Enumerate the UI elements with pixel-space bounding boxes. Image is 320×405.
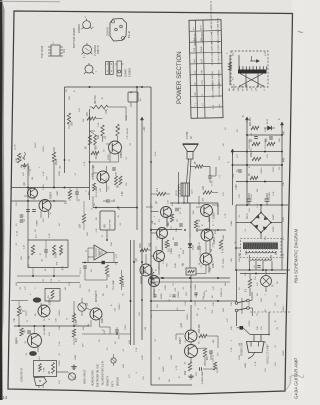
label C24 (113, 279, 115, 290)
transistor Q10 (201, 229, 216, 244)
oscillator triangle (88, 245, 114, 260)
dashed box voltage selector (231, 51, 268, 87)
label BOTTOM VIEWS (72, 28, 76, 48)
resistor tb4 (60, 245, 65, 270)
resistor R53 (165, 240, 170, 252)
wire output loop (190, 167, 216, 177)
wire trunk x28 (27, 163, 29, 240)
wire jack links (57, 365, 77, 373)
resistor R44 (251, 148, 261, 161)
wire Q3 wiring (106, 136, 119, 162)
wire diag (90, 131, 103, 142)
svg-text:1M: 1M (88, 323, 90, 326)
transistor Q15 (180, 336, 198, 357)
resistor R36 (199, 324, 207, 338)
svg-text:2.2K: 2.2K (168, 199, 170, 204)
resistor R39 emitter (185, 362, 192, 375)
wire output mesh (151, 195, 217, 275)
power transformer secondary winding (250, 259, 272, 261)
wire switch connections (237, 270, 253, 326)
resistor R15 (86, 135, 92, 149)
page corner curl bottom-right (285, 370, 304, 391)
svg-text:47K: 47K (156, 246, 158, 250)
svg-text:47K: 47K (114, 307, 116, 311)
resistor R17 (115, 176, 120, 188)
selector corner labels (233, 51, 268, 90)
resistor R43 (266, 137, 275, 145)
power switch S1 pole1 (235, 299, 249, 304)
labels tone box (35, 233, 52, 238)
jack network box (34, 361, 57, 377)
label LOW INPUT (20, 367, 24, 382)
pinout transistor 2SB346 (78, 16, 95, 34)
potentiometer VR3 (92, 94, 108, 114)
capacitor C30 (209, 351, 214, 362)
selector bottom label row (228, 87, 258, 91)
switch mechanical link dashed (242, 298, 290, 314)
svg-text:25V: 25V (83, 343, 85, 347)
svg-text:47K: 47K (100, 187, 102, 191)
capacitor C27 (171, 243, 178, 252)
wire preamp mid links (90, 131, 158, 162)
small loop 50 (45, 289, 60, 302)
resistor tb3 (53, 245, 58, 258)
wire tone rails (11, 268, 80, 301)
resistor Rin2 (72, 329, 78, 345)
corner scan tick (298, 31, 303, 32)
power transformer PT dashed enclosure (241, 239, 282, 258)
notes text block (93, 360, 120, 387)
label IC1 (62, 48, 66, 53)
resistor R52 (194, 220, 199, 232)
wire PSU rail C vertical (232, 152, 234, 205)
svg-text:1M: 1M (190, 285, 192, 288)
transistor Q3 (104, 135, 124, 158)
wire driver links (176, 334, 218, 370)
svg-text:10K: 10K (210, 267, 212, 271)
resistor R45 (249, 173, 258, 180)
wire center trunk (185, 164, 191, 300)
vibrato foot switch box (100, 211, 115, 240)
transistor Q14 (180, 322, 197, 342)
output transformer OT (176, 183, 194, 197)
capacitor near Q7 (172, 202, 178, 212)
label row below selector (229, 83, 257, 89)
wire PSU rail A vertical + (246, 121, 248, 205)
svg-text:25V: 25V (100, 251, 102, 255)
IC1 package top view (48, 40, 63, 56)
svg-text:25V: 25V (202, 197, 204, 201)
wire q6 links (86, 308, 110, 334)
wire vib links (85, 263, 131, 291)
resistor R42 (251, 139, 260, 146)
svg-text:1M: 1M (114, 199, 116, 202)
svg-text:2.2K: 2.2K (212, 242, 214, 247)
resistor R22 (151, 272, 156, 283)
capacitor col x22 (17, 215, 24, 236)
selector feed component (227, 52, 235, 85)
label +45V (235, 184, 238, 190)
label TOP VIEW (41, 45, 44, 58)
svg-text:1M: 1M (65, 287, 67, 290)
resistor above Q8 (203, 185, 212, 194)
terminal lug node (240, 326, 244, 330)
svg-text:10K: 10K (56, 261, 58, 265)
resistor R21 (120, 276, 125, 287)
wire trunk x137 (136, 87, 138, 230)
svg-text:2.2K: 2.2K (96, 228, 98, 233)
selector arrow (239, 55, 260, 70)
wire OT secondary leads (170, 172, 218, 204)
electrolytic C34 (247, 193, 254, 205)
resistor R60 (66, 188, 72, 205)
wire spk region links (210, 175, 221, 215)
resistor R12 (98, 125, 104, 139)
wire PSU hrail 181 (236, 181, 282, 183)
transistor Q5 (135, 258, 152, 276)
wire driver trunk (190, 305, 192, 362)
transistor Q7 (155, 200, 172, 217)
resistor R11 (87, 111, 96, 120)
resistor Rin1 (17, 328, 24, 344)
capacitor C37 (196, 367, 202, 376)
terminal strip black bar (238, 66, 267, 73)
transistor Q2b (39, 191, 53, 211)
tone box loop (28, 240, 68, 268)
parts table (188, 0, 223, 118)
capacitor C25 (115, 330, 120, 339)
transistor Q13 half (144, 268, 160, 287)
wire speaker to OT (187, 159, 192, 183)
table header EXPORT (200, 32, 204, 44)
transistor Q2a (23, 182, 38, 198)
svg-text:10K: 10K (168, 222, 170, 226)
capacitor C32 (265, 137, 273, 149)
svg-text:2.2K: 2.2K (56, 318, 58, 323)
resistor R23 (140, 243, 148, 252)
svg-text:1M: 1M (169, 244, 171, 247)
bridge rectifier SR1 (246, 212, 272, 234)
wire osc rails (82, 248, 118, 264)
label POWER SW (242, 342, 244, 356)
scanner edge dark strip (0, 0, 5, 400)
capacitor C31 (249, 137, 258, 150)
label phono area (201, 371, 204, 384)
svg-text:25V: 25V (166, 263, 168, 267)
selector cross wiring (239, 74, 263, 87)
wire PSU hrail 205 (236, 204, 288, 206)
small jack mid (111, 354, 116, 366)
wire preamp top rail (65, 86, 152, 88)
capacitor C22 (80, 266, 87, 274)
resistor Rin2a (72, 301, 78, 326)
supply arrow +14V (140, 117, 146, 132)
label C20 (96, 186, 98, 198)
wire Q4 wiring (93, 165, 107, 192)
wire shielded pair (130, 240, 136, 345)
pinout power transistor 2SB405 TO-3 (107, 19, 132, 42)
margin title R9A SCHEMATIC DIAGRAM (294, 228, 299, 283)
resistor tb1 (29, 245, 35, 259)
pinout dual rect package (106, 62, 114, 75)
resistor R41 (250, 117, 259, 130)
label speaker (187, 132, 193, 139)
resistor R24 top (52, 147, 58, 188)
svg-text:25V: 25V (61, 248, 63, 252)
label HIGH INPUT (83, 369, 87, 384)
labels under output rails (154, 289, 223, 299)
wire rail 207 (93, 196, 137, 209)
label INTENSITY (96, 290, 98, 302)
resistor R19e (89, 183, 96, 195)
wire q2 wiring (24, 188, 49, 219)
capacitor C36 (254, 265, 261, 268)
svg-text:1M: 1M (59, 165, 61, 168)
electrolytic blob C14 (29, 293, 43, 308)
wire PSU rail B vertical (281, 125, 283, 205)
wire PSU hrail 135 (246, 134, 283, 136)
svg-text:2.2K: 2.2K (185, 301, 187, 306)
capacitor C19 (112, 168, 117, 176)
svg-text:2.2K: 2.2K (23, 244, 25, 249)
wire trunk x89 (89, 109, 91, 200)
transistor Q12 (200, 253, 215, 268)
dense zone pepper labels (20, 149, 224, 365)
capacitor C33 (233, 170, 242, 178)
caps on rail 295 (153, 293, 197, 297)
wire Q7 Q8 wiring (146, 193, 218, 223)
speaker cone (183, 144, 199, 159)
wire left rail 201 (11, 200, 65, 202)
table header DOMESTIC (193, 32, 197, 46)
wire left trunk x151 (150, 87, 152, 385)
transistor Q1b (38, 297, 52, 317)
resistor R16 (94, 135, 98, 149)
svg-text:10K: 10K (21, 164, 23, 168)
resistor above Q7 (157, 187, 166, 195)
transistor Q4 (92, 165, 109, 183)
resistor R output coupling (195, 161, 203, 168)
electrolytic blob C15 (29, 351, 41, 360)
wire r11 links (90, 105, 103, 119)
resistor R38 (213, 362, 219, 373)
wire vib bottom (82, 327, 131, 334)
resistor R61 (80, 201, 86, 230)
wire out rails (150, 230, 236, 311)
svg-text:10K: 10K (92, 172, 94, 176)
ground driver (188, 374, 194, 379)
tone pot cluster (15, 144, 31, 176)
thermistor box (183, 263, 196, 275)
svg-text:10K: 10K (106, 284, 108, 288)
volume pot (14, 301, 25, 327)
resistor R50 (168, 214, 174, 226)
label CABLE 117V (267, 344, 270, 364)
transistor Q9 (151, 220, 168, 238)
supply arrow B (280, 122, 283, 128)
supply arrow A (245, 117, 248, 123)
wire PSU bottom rails (236, 269, 290, 275)
capacitor C60 (75, 188, 80, 203)
resistor R10b (67, 87, 73, 129)
wire PSU hrail 165 (232, 164, 284, 166)
pinout transistor 2SB324 (82, 43, 98, 58)
page number 14 (2, 395, 8, 400)
transistor Q6 (86, 302, 105, 323)
power transformer primary winding (246, 251, 276, 253)
wire AC feed (237, 312, 270, 341)
power transformer core (243, 242, 278, 251)
supply arrow C (231, 149, 234, 155)
transistor Q11 (149, 242, 165, 262)
wire PSU hrail 151 (233, 151, 284, 153)
electrolytic C35 (265, 192, 272, 205)
capacitor pair under q2 (24, 210, 39, 227)
pinout component row3b (115, 61, 132, 77)
resistor R37 (203, 348, 209, 360)
bias diode D2 (188, 238, 195, 252)
resistor R47 lamp dropper (246, 274, 252, 297)
svg-text:25V: 25V (212, 309, 214, 313)
resistor R18 (119, 176, 124, 196)
capacitor tb2 (42, 240, 48, 262)
AC plug (247, 342, 265, 359)
svg-text:47K: 47K (217, 352, 219, 356)
margin title GA9A GUITAR AMP (294, 358, 299, 399)
wire PT leads (236, 223, 276, 271)
transistor Q1 (23, 329, 42, 347)
svg-text:10K: 10K (213, 339, 215, 343)
pilot lamp PL (261, 270, 275, 292)
scan texture tiny labels (16, 88, 285, 388)
svg-text:.02: .02 (28, 263, 30, 267)
input connector symbol (34, 377, 47, 388)
heading POWER SECTION (176, 51, 183, 104)
diode D1 (264, 118, 275, 130)
potentiometer DEPTH (73, 298, 86, 316)
transistor Q8 (201, 205, 216, 220)
top page edge line (0, 0, 60, 3)
jack HIGH circle (68, 372, 76, 380)
wire q1 wiring (31, 326, 45, 352)
pinout transistor row3 (84, 45, 100, 74)
label C15 col (127, 127, 129, 139)
power switch S1 pole2 (235, 307, 249, 312)
wire mid links (154, 230, 207, 295)
svg-text:47K: 47K (46, 176, 48, 180)
resistor R51 (219, 240, 224, 253)
wire input rail 326 (14, 325, 90, 327)
junction dots final (27, 159, 283, 335)
resistor R13 (116, 124, 121, 136)
wire bottom circuit corner (151, 384, 192, 386)
svg-text:47K: 47K (51, 278, 53, 282)
wire +14V rail x142 (141, 122, 143, 340)
misc PSU labels (229, 115, 286, 163)
wire VR3 ends (90, 107, 127, 121)
wire preamp left boundary (64, 87, 66, 173)
wire left rail 187 (11, 187, 90, 189)
capacitor C26 (208, 176, 213, 186)
svg-text:47K: 47K (175, 287, 177, 291)
resistor R20 (105, 265, 110, 277)
capacitor Cin (25, 329, 46, 344)
capacitor C20 (103, 199, 114, 203)
vibrato jack J1 (128, 92, 142, 107)
wire bridge connections (236, 205, 282, 270)
wire q5 links (134, 250, 151, 284)
